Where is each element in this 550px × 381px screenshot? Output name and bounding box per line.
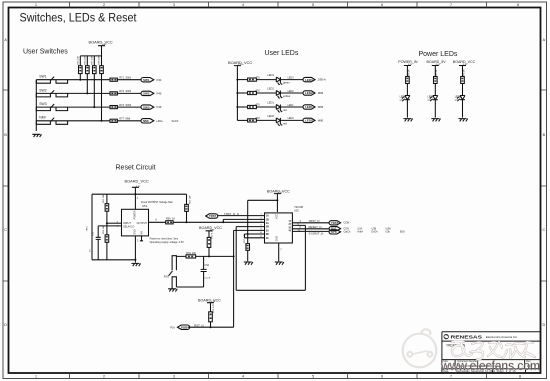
svg-text:470: 470 <box>255 103 260 107</box>
resistor R65 <box>79 56 81 80</box>
svg-text:M90: M90 <box>318 119 324 123</box>
svg-text:LED9: LED9 <box>428 95 435 98</box>
svg-text:1: 1 <box>35 374 37 378</box>
ground (pushbutton) <box>168 289 177 292</box>
off-page tag NMI <box>141 119 154 123</box>
off-page tag SW1 <box>141 78 154 82</box>
svg-text:LED10: LED10 <box>455 95 463 98</box>
svg-text:R55 10K: R55 10K <box>190 195 192 204</box>
svg-text:C54: C54 <box>205 264 210 267</box>
resistor R5 <box>434 77 438 96</box>
resistor R77 <box>110 119 141 122</box>
svg-text:R72 SW2: R72 SW2 <box>119 89 131 93</box>
svg-text:POWER: POWER <box>133 210 136 219</box>
wire gate inputs 4A/4B corners <box>245 234 259 238</box>
off-page tag TRST_N <box>329 221 341 225</box>
svg-text:R52 4.7K: R52 4.7K <box>213 303 215 313</box>
svg-text:GND: GND <box>133 229 136 235</box>
wire RST_N <box>188 326 234 328</box>
ground (switch bus) <box>32 134 41 137</box>
op-amp U52 gate box 74LV08 <box>265 213 293 243</box>
svg-text:3: 3 <box>173 3 175 7</box>
svg-text:1A: 1A <box>266 215 269 218</box>
svg-text:3.3V: 3.3V <box>211 301 216 303</box>
zone tick marks right <box>541 90 547 281</box>
power symbol BOARD_VCC (RC pullup) <box>206 231 213 238</box>
gate output 1Y wire <box>292 222 329 224</box>
switch SW2 row <box>36 90 110 97</box>
resistor R56 (series output) <box>166 221 258 224</box>
wire INPUT <box>107 222 122 224</box>
ground (BOARD_VCC LED) <box>459 119 468 122</box>
svg-text:B: B <box>4 133 7 137</box>
resistor R71 <box>110 78 141 81</box>
resistor R55 (output pullup) <box>185 194 189 222</box>
svg-text:7: 7 <box>450 374 452 378</box>
ground (pulldown) <box>244 262 253 265</box>
svg-text:470: 470 <box>255 89 260 93</box>
svg-text:HdrA: HdrA <box>358 231 364 234</box>
svg-text:R77 NMI: R77 NMI <box>119 117 130 121</box>
power symbol voltage marks <box>102 44 468 303</box>
wire OUTPUT <box>149 221 166 223</box>
svg-text:M96: M96 <box>318 91 324 95</box>
svg-text:BOARD_VCC: BOARD_VCC <box>89 40 113 45</box>
svg-text:3.3V: 3.3V <box>463 64 468 66</box>
svg-text:D: D <box>542 323 545 327</box>
svg-text:EtOr: EtOr <box>400 231 405 234</box>
svg-text:2: 2 <box>137 240 139 243</box>
svg-text:R68 10K: R68 10K <box>99 56 101 65</box>
off-page tag SW2 <box>141 91 154 95</box>
svg-text:TP13: TP13 <box>87 225 89 231</box>
svg-text:4Y: 4Y <box>288 230 291 233</box>
junction dots LED bus <box>236 79 238 108</box>
power symbol BOARD_5V <box>432 66 439 77</box>
svg-text:NMI: NMI <box>143 119 149 123</box>
svg-text:R5 1K: R5 1K <box>436 69 438 76</box>
ground (supervisor) <box>131 263 140 266</box>
zone letters left <box>4 38 7 327</box>
svg-text:1%: 1% <box>90 249 92 252</box>
LED LED10 <box>457 96 465 118</box>
svg-text:7: 7 <box>280 249 282 252</box>
svg-text:M95: M95 <box>318 105 324 109</box>
zone tick marks left <box>3 90 9 281</box>
off-page tag RESET_N <box>329 227 341 231</box>
wire TRST_IF_N to gate <box>218 215 265 217</box>
destination refs <box>344 227 406 233</box>
svg-text:C: C <box>4 228 7 232</box>
off-page tag LED1 <box>303 105 315 109</box>
svg-text:C: C <box>542 228 545 232</box>
svg-text:8: 8 <box>517 3 519 7</box>
svg-text:Electronics America Inc.: Electronics America Inc. <box>486 335 518 339</box>
svg-text:3.3V: 3.3V <box>238 64 243 66</box>
wire pulldown top tie <box>248 199 278 201</box>
resistor R6 <box>461 77 465 96</box>
wire gate input 2 from below <box>223 219 258 222</box>
resistor R57 (input pulldown) <box>246 200 250 261</box>
gate input stubs + pin numbers <box>258 219 265 237</box>
svg-text:LED3: LED3 <box>267 73 274 77</box>
svg-text:5.0V: 5.0V <box>436 64 441 66</box>
svg-text:LED0: LED0 <box>288 117 295 120</box>
svg-text:5: 5 <box>312 3 314 7</box>
svg-text:SxCh: SxCh <box>172 119 179 123</box>
svg-text:2: 2 <box>103 374 105 378</box>
off-page tag LED3 <box>303 77 315 81</box>
svg-text:VCC: VCC <box>276 214 279 219</box>
svg-text:1: 1 <box>137 197 139 200</box>
wire gate input RC node <box>234 230 258 327</box>
LED row 4: resistor R63 <box>237 119 276 122</box>
off-page tag RST_N (input) <box>178 325 190 329</box>
svg-text:SW2: SW2 <box>39 88 46 92</box>
svg-text:2B: 2B <box>266 226 269 229</box>
resistor R51 (series debounce) <box>186 255 196 258</box>
wire DELAY <box>98 226 121 237</box>
resistor R53 (divider top) <box>105 194 109 224</box>
no-connect stub pin 5 <box>140 236 143 241</box>
wire feedback loop <box>236 225 305 290</box>
svg-text:R65 10K: R65 10K <box>78 56 80 65</box>
svg-text:LED2: LED2 <box>288 90 295 93</box>
LED LED1 red <box>276 105 303 113</box>
power symbol BOARD_VCC (RST_N pullup) <box>207 303 214 312</box>
svg-text:R71 SW1: R71 SW1 <box>119 75 131 79</box>
power symbol BOARD_VCC (gate) <box>274 194 281 212</box>
svg-text:SYS: SYS <box>331 230 337 234</box>
svg-text:BOARD_VCC: BOARD_VCC <box>125 178 149 183</box>
svg-text:CtaCh: CtaCh <box>344 231 351 234</box>
svg-text:4A: 4A <box>266 237 269 240</box>
gate pin names right column <box>288 220 291 233</box>
power symbol BOARD_VCC (user leds) <box>234 66 241 121</box>
svg-text:LED1: LED1 <box>305 105 313 109</box>
svg-text:5: 5 <box>312 374 314 378</box>
svg-text:R4 1K: R4 1K <box>408 69 410 76</box>
svg-text:LED0: LED0 <box>267 114 274 118</box>
svg-text:8: 8 <box>519 374 521 378</box>
svg-text:User Switches: User Switches <box>23 48 68 55</box>
LED LED2 yellow <box>276 91 303 99</box>
capacitor C55 <box>96 237 101 259</box>
gate output 3Y wire <box>292 230 329 232</box>
switch NMI row <box>36 118 110 125</box>
resistor value marks <box>78 56 101 65</box>
svg-text:R51 100: R51 100 <box>186 252 196 255</box>
svg-text:LED3: LED3 <box>288 76 295 79</box>
op-amp U51 supervisor box <box>122 209 149 236</box>
svg-text:3A: 3A <box>266 229 269 232</box>
LED LED8 <box>402 96 410 118</box>
svg-text:LED1: LED1 <box>267 101 274 105</box>
LED LED0 red <box>276 118 303 126</box>
svg-text:Reset Circuit: Reset Circuit <box>116 165 156 172</box>
svg-text:User LEDs: User LEDs <box>265 50 299 57</box>
svg-text:470: 470 <box>255 116 260 120</box>
ground (BOARD_5V LED) <box>431 119 440 122</box>
svg-text:+3De: +3De <box>156 119 163 123</box>
svg-text:RESET_N: RESET_N <box>309 225 322 229</box>
svg-text:TRST: TRST <box>209 214 217 218</box>
svg-text:6: 6 <box>156 219 158 222</box>
junction dots pullups <box>79 79 102 122</box>
power symbol POWER_IN <box>404 66 411 77</box>
off-page tag SYSRST_N <box>329 230 341 234</box>
svg-text:R6 1K: R6 1K <box>463 69 465 76</box>
svg-text:red: red <box>283 121 287 125</box>
svg-text:4: 4 <box>242 374 244 378</box>
resistor R52 <box>209 312 213 327</box>
svg-text:1: 1 <box>35 3 37 7</box>
svg-text:BOARD_VCC: BOARD_VCC <box>198 298 221 302</box>
svg-text:0.1uF: 0.1uF <box>205 278 211 280</box>
resistor R74 <box>110 106 141 109</box>
Renesas logo mark <box>444 334 449 339</box>
svg-text:GND: GND <box>276 236 279 242</box>
svg-text:Power LEDs: Power LEDs <box>419 51 458 58</box>
svg-text:TRST_N: TRST_N <box>309 219 320 223</box>
svg-text:3.3V: 3.3V <box>102 44 107 46</box>
wire supervisor top rail <box>92 193 187 195</box>
LED row 1: resistor R60 <box>237 78 276 81</box>
gate pin names left column <box>266 215 269 240</box>
resistor body marks <box>79 67 102 71</box>
power symbol BOARD_VCC (power leds) <box>459 66 466 77</box>
junction top rail <box>134 193 136 195</box>
svg-text:red: red <box>283 108 287 112</box>
svg-text:DxOh: DxOh <box>372 231 379 234</box>
svg-text:SW1: SW1 <box>143 78 150 82</box>
svg-text:SW3: SW3 <box>143 105 150 109</box>
power symbol BOARD_VCC (supervisor) <box>132 187 139 194</box>
wire pushbutton bottom <box>172 287 203 289</box>
off-page tag LED0 <box>303 118 315 122</box>
wire left rail A <box>92 194 135 260</box>
svg-text:R67 10K: R67 10K <box>92 56 94 65</box>
left bus wire to ground <box>35 80 37 131</box>
svg-text:Switches, LEDs & Reset: Switches, LEDs & Reset <box>20 10 138 24</box>
wire pullup top bus <box>80 55 101 57</box>
svg-text:4: 4 <box>242 3 244 7</box>
resistor R54 (divider bottom) <box>105 223 109 260</box>
svg-text:RST: RST <box>164 275 170 279</box>
svg-text:SW2: SW2 <box>143 92 150 96</box>
zone tick marks bottom <box>70 373 487 379</box>
off-page tag LED2 <box>303 91 315 95</box>
resistor R66 <box>86 56 88 93</box>
svg-text:SW3: SW3 <box>39 102 46 106</box>
svg-text:LED1: LED1 <box>288 104 295 107</box>
LED row 3: resistor R62 <box>237 105 276 108</box>
zone letters right <box>542 38 545 327</box>
svg-text:2A: 2A <box>266 222 269 225</box>
svg-text:LED0: LED0 <box>305 119 313 123</box>
svg-text:R53 10K: R53 10K <box>103 194 105 203</box>
svg-text:R66 10K: R66 10K <box>85 56 87 65</box>
svg-text:LED2: LED2 <box>267 87 274 91</box>
pushbutton SW4 <box>169 256 177 287</box>
svg-text:www.elecfans.com: www.elecfans.com <box>440 358 540 373</box>
svg-text:7: 7 <box>450 3 452 7</box>
svg-text:Operating supply voltage: 2.5V: Operating supply voltage: 2.5V <box>150 241 185 244</box>
svg-text:A: A <box>4 38 7 42</box>
switch SW1 row <box>36 77 110 84</box>
power symbol BOARD_VCC (switch pullups) <box>98 46 105 56</box>
junction divider/input <box>106 222 108 224</box>
svg-text:R56 1K: R56 1K <box>166 217 175 220</box>
svg-text:2: 2 <box>103 3 105 7</box>
svg-text:LED8: LED8 <box>400 95 407 98</box>
svg-text:RENESAS: RENESAS <box>451 334 483 340</box>
off-page tag TRST_IF_N (input) <box>206 214 218 218</box>
resistor R50 <box>207 237 211 256</box>
svg-text:U51: U51 <box>142 204 148 208</box>
watermark chinese characters <box>452 341 535 359</box>
svg-text:B: B <box>543 133 546 137</box>
svg-text:3.3V: 3.3V <box>136 186 141 188</box>
svg-text:5.0V: 5.0V <box>408 64 413 66</box>
svg-text:A: A <box>543 38 546 42</box>
gate output 2Y wire <box>292 228 329 230</box>
svg-text:LED3: LED3 <box>305 78 313 82</box>
svg-text:6: 6 <box>381 374 383 378</box>
ground (POWER_IN LED) <box>403 119 412 122</box>
resistor R67 <box>93 56 95 107</box>
svg-text:MR: MR <box>140 231 143 235</box>
LED LED9 <box>430 96 438 118</box>
svg-text:P45: P45 <box>157 92 162 96</box>
svg-text:NMI: NMI <box>39 116 45 120</box>
zone numbers bottom <box>35 374 521 378</box>
svg-text:yellow: yellow <box>283 94 290 98</box>
svg-text:P46: P46 <box>157 105 162 109</box>
watermark robot logo <box>403 329 437 367</box>
svg-text:green: green <box>283 81 290 85</box>
zone numbers top <box>35 3 519 7</box>
ground (gate) <box>275 262 284 265</box>
resistor R68 <box>101 56 103 121</box>
svg-text:CON: CON <box>344 221 350 225</box>
wire gate gnd <box>278 243 280 261</box>
svg-text:P44: P44 <box>157 78 162 82</box>
svg-text:SYSRST_N: SYSRST_N <box>309 232 324 236</box>
svg-text:POR: POR <box>181 325 187 329</box>
svg-text:6: 6 <box>381 3 383 7</box>
svg-text:U3b: U3b <box>386 231 391 234</box>
svg-text:LED2: LED2 <box>305 91 313 95</box>
wire U51 gnd pin <box>134 236 136 263</box>
svg-text:470: 470 <box>255 75 260 79</box>
svg-text:3.3V: 3.3V <box>210 229 215 231</box>
svg-text:3: 3 <box>173 374 175 378</box>
svg-text:TRST: TRST <box>331 221 339 225</box>
LED row 2: resistor R61 <box>237 91 276 94</box>
svg-text:POr: POr <box>170 325 175 329</box>
svg-text:3B: 3B <box>266 233 269 236</box>
wire U51 power pin <box>134 194 136 209</box>
svg-text:SW1: SW1 <box>39 75 46 79</box>
resistor R72 <box>110 92 141 95</box>
off-page tag SW3 <box>141 105 154 109</box>
capacitor C54 <box>201 256 207 287</box>
LED LED3 green <box>276 77 303 85</box>
svg-text:INPUT: INPUT <box>123 221 131 225</box>
resistor R1 <box>406 77 410 96</box>
switch SW3 row <box>36 104 110 111</box>
svg-text:D95-A: D95-A <box>318 78 326 82</box>
svg-text:R74 SW3: R74 SW3 <box>119 103 131 107</box>
svg-text:D: D <box>4 323 7 327</box>
svg-text:3.3V: 3.3V <box>278 192 283 194</box>
svg-text:OUTPUT: OUTPUT <box>137 221 148 225</box>
svg-text:U52: U52 <box>294 209 299 212</box>
svg-text:C55: C55 <box>93 231 95 236</box>
wire RC node <box>176 255 233 257</box>
svg-text:DELAY/LO: DELAY/LO <box>123 226 134 229</box>
